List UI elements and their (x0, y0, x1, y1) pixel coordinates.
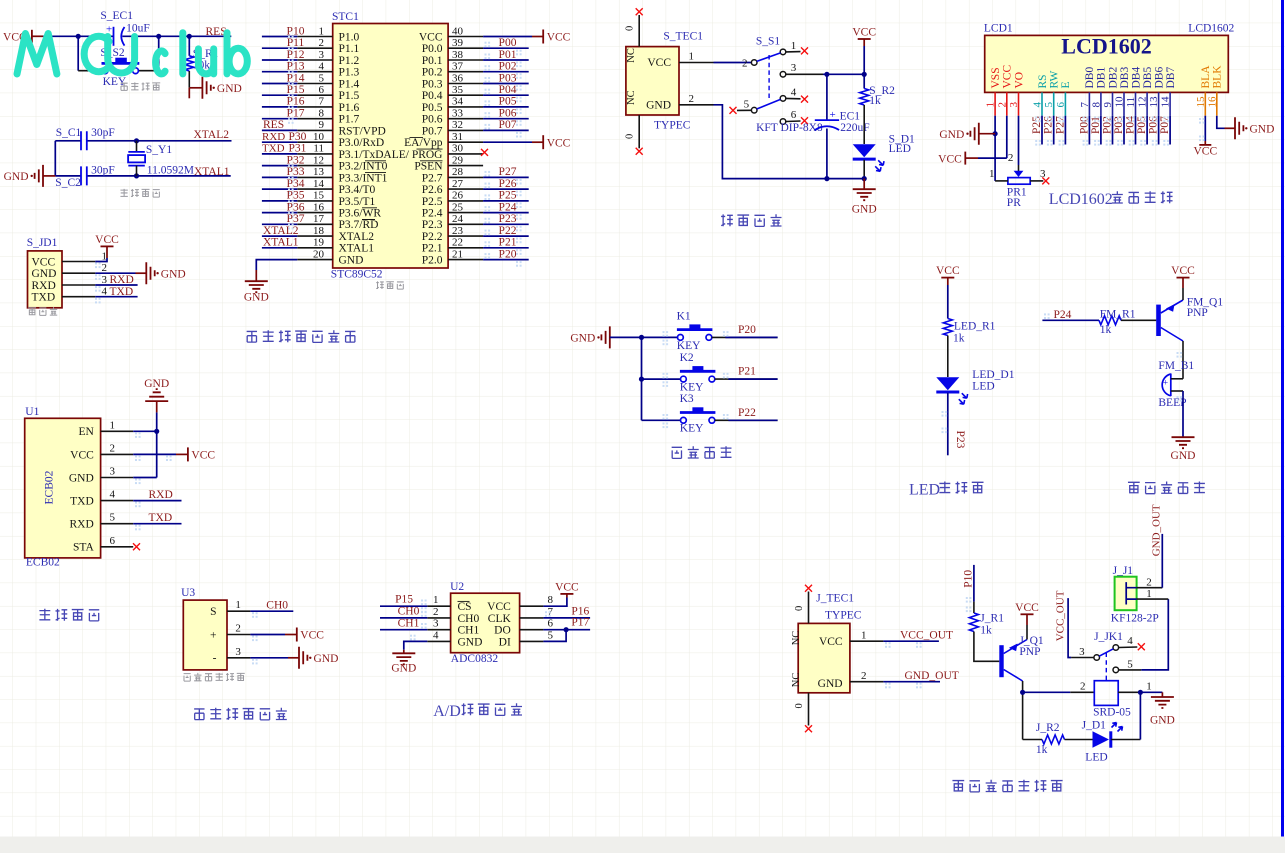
svg-text:J_JK1: J_JK1 (1094, 631, 1123, 643)
svg-text:VCC: VCC (1015, 602, 1039, 614)
wire + net label P22 (483, 235, 529, 237)
svg-text:1: 1 (235, 599, 241, 611)
svg-text:P14: P14 (287, 72, 305, 84)
wire + net label P24 (483, 212, 529, 214)
pin 25 P2.4 (448, 212, 483, 214)
svg-text:XTAL1: XTAL1 (339, 243, 375, 255)
crystal S_Y1 11.0592M (136, 141, 138, 152)
label 晶振电路 (crystal circuit) (120, 189, 127, 197)
svg-text:2: 2 (689, 93, 695, 105)
pin 4 P1.3 (297, 71, 332, 73)
LCD pin 14 DB7 (1169, 92, 1171, 115)
svg-text:P0.3: P0.3 (422, 78, 443, 90)
svg-text:RXD: RXD (149, 489, 173, 501)
svg-text:P01: P01 (1090, 116, 1102, 134)
ground GND (bluetooth, above) (156, 401, 158, 412)
svg-text:1: 1 (985, 102, 997, 108)
LCD wire + net label P27 (1064, 116, 1066, 145)
LCD pin 1 VSS (994, 92, 996, 115)
junction node cap/switch left (76, 34, 81, 39)
svg-text:DO: DO (494, 625, 511, 637)
resistor S_R1 10k (188, 36, 190, 56)
power port VCC (relay transistor) (1021, 613, 1034, 615)
svg-text:P04: P04 (499, 84, 517, 96)
pin 3 of switch (780, 72, 786, 78)
svg-text:P00: P00 (1078, 116, 1090, 134)
pin 17 P3.7/RD (297, 223, 332, 225)
svg-text:12: 12 (1137, 97, 1149, 108)
svg-text:6: 6 (319, 84, 325, 96)
pin 8 P1.7 (297, 118, 332, 120)
svg-text:1: 1 (791, 40, 797, 52)
pin 31 EA/Vpp (448, 141, 483, 143)
relay coil SRD-05 (1023, 691, 1071, 693)
svg-text:P1.5: P1.5 (339, 90, 360, 102)
svg-text:GND_OUT: GND_OUT (905, 670, 959, 682)
svg-text:21: 21 (452, 248, 463, 260)
pin 15 P3.5/T1 (297, 200, 332, 202)
svg-text:P3.0/RxD: P3.0/RxD (339, 137, 385, 149)
svg-text:P03: P03 (1113, 116, 1125, 134)
LCD pin 16 BLK (1216, 92, 1218, 115)
svg-text:1: 1 (433, 594, 439, 606)
LCD wire + net label P00 (1088, 116, 1090, 145)
svg-text:4: 4 (433, 629, 439, 641)
svg-text:220uF: 220uF (840, 122, 869, 134)
pin 1 EN (101, 430, 134, 432)
svg-text:5: 5 (744, 99, 750, 111)
svg-text:BLK: BLK (1212, 65, 1224, 89)
LCD pin 9 DB2 (1112, 92, 1114, 115)
svg-text:P1.4: P1.4 (339, 78, 360, 90)
svg-text:15: 15 (313, 190, 325, 202)
svg-text:XTAL1: XTAL1 (263, 237, 299, 249)
pin 23 P2.2 (448, 235, 483, 237)
wire pin3 to GND (250, 657, 288, 659)
svg-text:XTAL1: XTAL1 (194, 166, 230, 178)
svg-text:P07: P07 (1159, 116, 1171, 134)
svg-text:4: 4 (319, 61, 325, 73)
wire + net label P26 (483, 188, 529, 190)
svg-text:RES: RES (263, 119, 284, 131)
svg-text:P1.0: P1.0 (339, 31, 360, 43)
wire rail vertical (156, 412, 158, 477)
svg-text:3: 3 (319, 49, 325, 61)
svg-text:0: 0 (625, 26, 636, 31)
capacitor S_C1 30pF (81, 131, 87, 150)
svg-text:PSEN: PSEN (414, 161, 443, 173)
svg-text:6: 6 (548, 618, 554, 630)
overlines on EA PROG PSEN (410, 137, 443, 160)
wire pin4 GND down (404, 641, 428, 649)
svg-text:A/D: A/D (433, 703, 461, 720)
svg-text:VSS: VSS (990, 67, 1002, 88)
svg-text:RES: RES (206, 26, 227, 38)
svg-text:P27: P27 (499, 166, 517, 178)
svg-text:DB6: DB6 (1153, 67, 1165, 89)
pin 18 XTAL2 (297, 235, 332, 237)
svg-text:2: 2 (235, 623, 241, 635)
junction crystal bottom (134, 173, 139, 178)
svg-text:RXD: RXD (70, 519, 94, 531)
pin 27 P2.6 (448, 188, 483, 190)
svg-text:P02: P02 (1102, 116, 1114, 134)
svg-text:VCC_OUT: VCC_OUT (900, 629, 953, 641)
svg-text:P07: P07 (499, 119, 517, 131)
svg-text:30: 30 (452, 143, 464, 155)
connector J_TEC1 TYPEC body (798, 623, 850, 692)
svg-text:8: 8 (319, 108, 325, 120)
svg-text:P32: P32 (287, 154, 305, 166)
svg-text:VCC: VCC (1193, 146, 1217, 158)
junction EC1 bottom (824, 176, 829, 181)
svg-text:EN: EN (78, 426, 94, 438)
LCD pin 4 RS (1041, 92, 1043, 115)
junction relay pin1 (1138, 690, 1143, 695)
svg-text:7: 7 (1079, 102, 1091, 108)
svg-text:KEY: KEY (680, 382, 704, 394)
wire + net label P02 (483, 71, 529, 73)
ground GND (relay) (1161, 692, 1163, 697)
pin 6 of switch with X (780, 119, 786, 125)
svg-text:S_C2: S_C2 (55, 177, 81, 189)
svg-text:LED_R1: LED_R1 (954, 320, 996, 332)
svg-text:VCC: VCC (852, 27, 876, 39)
transistor J_Q1 PNP (999, 645, 1003, 677)
pin 29 PSEN (448, 165, 483, 167)
svg-text:P0.5: P0.5 (422, 102, 443, 114)
svg-text:CS: CS (458, 601, 472, 613)
pin 40 VCC (448, 36, 483, 38)
svg-text:TXD: TXD (70, 496, 94, 508)
svg-text:35: 35 (452, 84, 464, 96)
svg-text:P20: P20 (499, 248, 517, 260)
svg-text:GND: GND (391, 663, 416, 675)
svg-text:P26: P26 (499, 178, 517, 190)
ground GND (MCU) (245, 281, 268, 292)
wire bottom rail (TYPEC GND) (714, 105, 865, 179)
svg-text:VCC_OUT: VCC_OUT (1054, 590, 1066, 641)
svg-text:P02: P02 (499, 61, 517, 73)
svg-text:1: 1 (110, 419, 116, 431)
svg-text:VCC: VCC (95, 234, 119, 246)
svg-text:PNP: PNP (1019, 646, 1040, 658)
LCD pin 10 DB3 (1123, 92, 1125, 115)
svg-text:3: 3 (235, 646, 241, 658)
wire reset rail (43, 35, 113, 37)
pin 4 TXD (62, 296, 95, 298)
svg-text:P26: P26 (1043, 116, 1055, 134)
svg-text:38: 38 (452, 49, 464, 61)
svg-text:GND: GND (1150, 715, 1175, 727)
svg-text:VO: VO (1013, 72, 1025, 89)
svg-text:29: 29 (452, 154, 464, 166)
pin 11 P3.1/TxD (297, 153, 332, 155)
svg-text:VCC: VCC (300, 630, 324, 642)
pin 3 GND (101, 477, 134, 479)
pin 2 GND of TYPEC (679, 104, 714, 106)
pin 1 VCC (62, 261, 95, 263)
svg-text:P2.6: P2.6 (422, 184, 443, 196)
svg-text:FM_B1: FM_B1 (1158, 360, 1194, 372)
title 继电器控制电路 (relay control) (952, 781, 964, 791)
svg-text:2: 2 (433, 606, 439, 618)
wire pin2 to VCC port (250, 634, 285, 636)
svg-text:P15: P15 (395, 594, 413, 606)
svg-text:GND: GND (32, 268, 57, 280)
junction keys rail mid (639, 377, 644, 382)
wire pin2 VCC to port (133, 453, 176, 455)
LED S_D1 (853, 144, 876, 157)
title 单片机最小系统 (MCU minimal system) (247, 331, 257, 342)
svg-text:NC: NC (626, 48, 637, 63)
svg-text:CH0: CH0 (398, 606, 420, 618)
svg-text:32: 32 (452, 119, 463, 131)
pin 7 P1.6 (297, 106, 332, 108)
svg-text:34: 34 (452, 96, 464, 108)
svg-text:RXD: RXD (32, 280, 56, 292)
svg-text:1: 1 (989, 168, 995, 180)
junction EN/GND rail (154, 429, 159, 434)
svg-text:P0.6: P0.6 (422, 114, 443, 126)
wire VO to potentiometer wiper (1018, 116, 1020, 165)
svg-text:4: 4 (791, 86, 797, 98)
ground GND (LCD backlight) (1235, 117, 1243, 139)
no-connect X pin30 (481, 149, 488, 156)
key K2 (642, 378, 681, 380)
svg-text:LED: LED (909, 481, 940, 498)
svg-text:6: 6 (791, 109, 797, 121)
svg-text:15: 15 (1195, 96, 1207, 108)
svg-text:P10: P10 (962, 570, 974, 588)
wire BLK to ground (1217, 116, 1225, 129)
pin 0 bottom with no-connect X (638, 115, 640, 148)
svg-text:P06: P06 (1148, 116, 1160, 134)
svg-text:P2.4: P2.4 (422, 208, 443, 220)
svg-text:XTAL2: XTAL2 (339, 231, 375, 243)
svg-text:3: 3 (1008, 102, 1020, 108)
resistor LED_R1 1k (943, 319, 952, 336)
svg-text:4: 4 (1032, 102, 1044, 108)
wire + net label P03 (483, 83, 529, 85)
svg-text:VCC: VCC (936, 265, 960, 277)
svg-text:GND: GND (244, 292, 269, 304)
svg-text:J_TEC1: J_TEC1 (816, 592, 854, 604)
svg-text:8: 8 (548, 594, 554, 606)
svg-text:K3: K3 (680, 393, 694, 405)
key K3 (642, 419, 681, 421)
pin 32 P0.7 (448, 129, 483, 131)
LCD pin 3 VO (1018, 92, 1020, 115)
svg-text:2: 2 (1008, 152, 1014, 164)
svg-text:GND: GND (852, 203, 877, 215)
wire pin6/pin5 net P17 (543, 629, 590, 631)
pin 3 RXD (62, 284, 95, 286)
svg-text:5: 5 (110, 512, 116, 524)
svg-text:P1.1: P1.1 (339, 43, 360, 55)
svg-text:17: 17 (313, 213, 325, 225)
svg-text:KF128-2P: KF128-2P (1111, 612, 1159, 624)
svg-text:12: 12 (313, 154, 324, 166)
svg-text:EC1: EC1 (840, 110, 861, 122)
svg-text:K2: K2 (680, 352, 694, 364)
svg-text:P24: P24 (1054, 309, 1072, 321)
pin 2 CH0 (427, 617, 450, 619)
connector S_JD1 body (28, 251, 63, 308)
svg-text:NC: NC (626, 90, 637, 105)
svg-text:10uF: 10uF (126, 23, 150, 35)
wire + net label P21 (483, 247, 529, 249)
svg-text:1k: 1k (980, 625, 992, 637)
svg-text:PNP: PNP (1187, 307, 1208, 319)
svg-text:+: + (1163, 378, 1168, 388)
svg-text:S_Y1: S_Y1 (146, 144, 172, 156)
LCD pin 11 DB4 (1135, 92, 1137, 115)
svg-text:LCD1602: LCD1602 (1188, 22, 1234, 34)
wire pin4 net RXD (133, 500, 181, 502)
sheet border right edge (1281, 0, 1284, 837)
svg-text:1: 1 (861, 629, 867, 641)
junction EC1 top (824, 72, 829, 77)
svg-text:RW: RW (1049, 70, 1061, 88)
svg-text:1: 1 (319, 25, 325, 37)
svg-text:VCC: VCC (1171, 265, 1195, 277)
svg-text:P2.3: P2.3 (422, 219, 443, 231)
wire + net label P04 (483, 94, 529, 96)
pin 16 P3.6/WR (297, 212, 332, 214)
pin 5 RXD (101, 523, 134, 525)
svg-text:11: 11 (1125, 97, 1137, 108)
pin 26 P2.5 (448, 200, 483, 202)
power port VCC (LCD left) (964, 152, 966, 165)
wire base (974, 632, 999, 662)
svg-text:1: 1 (1146, 588, 1152, 600)
MCUclub watermark logo (17, 33, 247, 74)
svg-text:2: 2 (110, 442, 116, 454)
ground GND (keys) (601, 326, 609, 348)
svg-text:9: 9 (319, 119, 325, 131)
svg-text:DB5: DB5 (1142, 67, 1154, 89)
svg-text:4: 4 (110, 489, 116, 501)
svg-text:P01: P01 (499, 49, 517, 61)
wire net VCC_OUT vertical (1068, 598, 1071, 657)
svg-text:S_S2: S_S2 (100, 47, 125, 59)
MCU U-STC1 body (333, 24, 448, 269)
svg-text:P34: P34 (287, 178, 305, 190)
wire collector down (1022, 681, 1024, 740)
pin 1 wire + net VCC_OUT (850, 640, 884, 642)
wire VCC pin down (1006, 116, 1008, 158)
svg-text:GND: GND (161, 268, 186, 280)
svg-text:VCC: VCC (547, 32, 571, 44)
pin 5 of switch with X (751, 107, 757, 113)
svg-text:VCC: VCC (70, 449, 94, 461)
svg-text:KEY: KEY (677, 340, 701, 352)
LCD pin 2 VCC (1006, 92, 1008, 115)
wire + net label P05 (483, 106, 529, 108)
svg-text:28: 28 (452, 166, 464, 178)
overline on CS (458, 600, 470, 602)
svg-text:P2.0: P2.0 (422, 255, 443, 267)
pin 9 RST/VPD (297, 129, 332, 131)
svg-text:14: 14 (1160, 96, 1172, 108)
svg-text:5: 5 (1043, 102, 1055, 108)
ADC U2 body (451, 593, 520, 653)
svg-text:P3.1/TxD: P3.1/TxD (339, 149, 384, 161)
wire + net label P22 (715, 419, 778, 421)
pin 0 top with no-connect X (638, 15, 640, 47)
wire collector to buzzer (1182, 341, 1184, 379)
svg-text:LED: LED (889, 143, 911, 155)
pin 30 ALE/ PROG (448, 153, 483, 155)
pin 4 of switch with X (780, 96, 786, 102)
title 电源电路 (power circuit) (721, 214, 733, 226)
svg-text:4: 4 (1127, 635, 1133, 647)
resistor FM_R1 1k (1099, 316, 1121, 325)
svg-text:+: + (830, 109, 836, 121)
svg-text:2: 2 (861, 670, 867, 682)
svg-text:DB4: DB4 (1130, 67, 1142, 89)
pin 22 P2.1 (448, 247, 483, 249)
svg-text:16: 16 (1206, 96, 1218, 108)
pin 8 VCC (520, 605, 544, 607)
wire pin3 net CH1 (380, 629, 427, 631)
svg-text:S_EC1: S_EC1 (100, 10, 133, 22)
buzzer FM_B1 BEEP (1162, 374, 1171, 397)
svg-text:VCC: VCC (419, 31, 443, 43)
switch dashed link (768, 55, 770, 99)
svg-text:3: 3 (791, 62, 797, 74)
LCD pin 5 RW (1053, 92, 1055, 115)
svg-text:31: 31 (452, 131, 463, 143)
wire pin4 net TXD (95, 296, 137, 298)
svg-text:DB7: DB7 (1165, 67, 1177, 89)
svg-text:ECB02: ECB02 (44, 470, 56, 504)
svg-text:J_J1: J_J1 (1113, 565, 1134, 577)
pin 24 P2.3 (448, 223, 483, 225)
switch S_S2 KEY (reset button) (77, 36, 79, 70)
no-connect X pin6 STA (133, 543, 140, 550)
wire + net label P23 (483, 223, 529, 225)
svg-text:37: 37 (452, 61, 464, 73)
svg-text:P3.5/T1: P3.5/T1 (339, 196, 376, 208)
svg-text:S_TEC1: S_TEC1 (663, 31, 703, 43)
svg-text:P22: P22 (738, 407, 756, 419)
pin 2 GND (62, 272, 95, 274)
svg-text:DB0: DB0 (1084, 67, 1096, 89)
svg-text:VCC: VCC (938, 153, 962, 165)
svg-text:GND: GND (570, 333, 595, 345)
svg-text:P05: P05 (1136, 116, 1148, 134)
svg-text:GND: GND (69, 472, 94, 484)
svg-text:9: 9 (1102, 102, 1114, 108)
svg-text:DB3: DB3 (1119, 67, 1131, 89)
svg-text:S: S (210, 606, 216, 618)
svg-text:GND: GND (939, 129, 964, 141)
svg-text:P15: P15 (287, 84, 305, 96)
svg-text:P21: P21 (738, 366, 756, 378)
svg-text:5: 5 (319, 72, 325, 84)
svg-text:0: 0 (794, 703, 805, 708)
svg-text:25: 25 (452, 201, 464, 213)
svg-text:LCD1602: LCD1602 (1061, 34, 1151, 59)
wire pin1 net CH0 (250, 610, 293, 612)
pin 3 CH1 (427, 629, 450, 631)
wire + net label P01 (483, 59, 529, 61)
svg-text:J_R1: J_R1 (980, 612, 1004, 624)
pin 1 CS (427, 605, 450, 607)
svg-text:26: 26 (452, 190, 464, 202)
